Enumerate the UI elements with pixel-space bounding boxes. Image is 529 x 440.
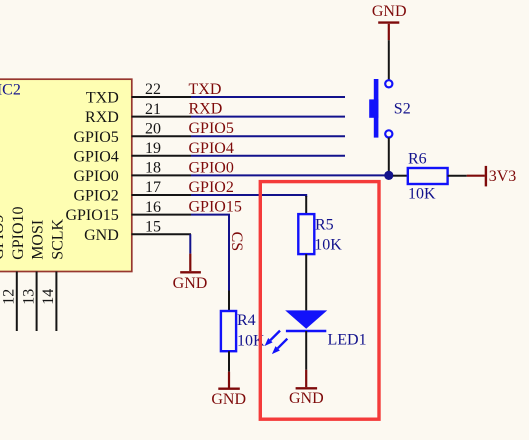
pin 17 — [132, 194, 192, 196]
svg-text:GND: GND — [289, 390, 324, 407]
svg-text:GPIO5: GPIO5 — [73, 129, 118, 146]
svg-text:SCLK: SCLK — [50, 218, 67, 259]
pin 22 — [132, 96, 192, 98]
IC2 component body — [0, 79, 132, 271]
svg-text:RXD: RXD — [85, 109, 119, 126]
svg-text:22: 22 — [145, 81, 161, 98]
pin 15 — [132, 233, 192, 235]
svg-text:GPIO0: GPIO0 — [189, 159, 234, 176]
svg-text:TXD: TXD — [189, 81, 222, 98]
svg-text:14: 14 — [40, 289, 57, 305]
resistor R6 — [408, 150, 448, 202]
wire GPIO2 — [191, 195, 306, 197]
svg-text:MOSI: MOSI — [30, 220, 47, 260]
switch S2 — [369, 79, 411, 138]
ground GND top — [372, 3, 407, 40]
svg-text:TXD: TXD — [86, 90, 119, 107]
wire TXD — [191, 96, 345, 98]
wire GND to S2 — [388, 40, 390, 80]
pin 19 — [132, 155, 192, 157]
LED LED1 — [265, 310, 367, 354]
pin 16 — [132, 214, 192, 216]
wire S2 to junction — [388, 138, 390, 176]
pin 20 — [132, 135, 192, 137]
svg-text:S2: S2 — [394, 100, 411, 117]
junction node GPIO0 — [384, 171, 393, 180]
svg-text:3V3: 3V3 — [489, 168, 517, 185]
pin 12 — [16, 272, 18, 332]
svg-text:10K: 10K — [408, 185, 436, 202]
wire RXD — [191, 116, 345, 118]
LED arrow 1 — [265, 331, 280, 346]
svg-text:GPIO15: GPIO15 — [189, 199, 242, 216]
wire LED1 to ground — [305, 331, 307, 370]
pin 21 — [132, 116, 192, 118]
wire junction to R6 — [393, 175, 408, 177]
resistor R4 — [221, 291, 265, 352]
wire pin15 down — [189, 234, 191, 253]
svg-text:GND: GND — [211, 391, 246, 408]
svg-text:18: 18 — [145, 160, 161, 177]
svg-text:R4: R4 — [237, 312, 256, 329]
power port 3V3 — [467, 166, 516, 187]
svg-text:19: 19 — [145, 140, 161, 157]
svg-text:15: 15 — [145, 218, 161, 235]
svg-text:IC2: IC2 — [0, 81, 21, 98]
wire GPIO15 — [191, 215, 229, 291]
ground symbol R4 — [211, 372, 246, 408]
wire GPIO4 — [191, 155, 345, 157]
svg-text:R6: R6 — [408, 150, 427, 167]
svg-text:GPIO0: GPIO0 — [73, 168, 118, 185]
svg-text:GND: GND — [372, 3, 407, 20]
svg-text:GPIO10: GPIO10 — [10, 206, 27, 259]
svg-text:GPIO5: GPIO5 — [189, 120, 234, 137]
svg-text:21: 21 — [145, 101, 161, 118]
svg-text:GPIO2: GPIO2 — [189, 179, 234, 196]
svg-text:13: 13 — [20, 289, 37, 305]
wire GPIO5 — [191, 135, 345, 137]
resistor R5 — [298, 196, 342, 254]
svg-text:GPIO4: GPIO4 — [189, 140, 234, 157]
svg-text:LED1: LED1 — [328, 332, 367, 349]
ground symbol LED1 — [289, 370, 324, 407]
red highlight box — [260, 182, 379, 420]
wire R4 to ground — [228, 351, 230, 372]
LED arrow 2 — [272, 339, 287, 354]
svg-text:GPIO4: GPIO4 — [73, 148, 118, 165]
svg-text:R5: R5 — [315, 217, 334, 234]
svg-text:GPIO9: GPIO9 — [0, 214, 7, 259]
svg-text:20: 20 — [145, 120, 161, 137]
pin 14 — [55, 272, 57, 332]
svg-text:CS: CS — [228, 232, 245, 252]
svg-text:12: 12 — [1, 289, 18, 305]
ground symbol pin15 — [173, 254, 208, 292]
svg-text:10K: 10K — [314, 237, 342, 254]
pin 18 — [132, 174, 192, 176]
svg-text:GPIO15: GPIO15 — [65, 207, 118, 224]
wire GPIO0 — [191, 174, 386, 176]
wire R6 to 3V3 — [448, 175, 467, 177]
svg-text:RXD: RXD — [189, 101, 223, 118]
wire R5 to LED1 — [305, 254, 307, 310]
svg-text:GND: GND — [84, 227, 119, 244]
svg-text:17: 17 — [145, 179, 161, 196]
svg-text:16: 16 — [145, 199, 161, 216]
svg-text:GPIO2: GPIO2 — [73, 188, 118, 205]
pin 13 — [36, 272, 38, 332]
svg-text:GND: GND — [173, 275, 208, 292]
